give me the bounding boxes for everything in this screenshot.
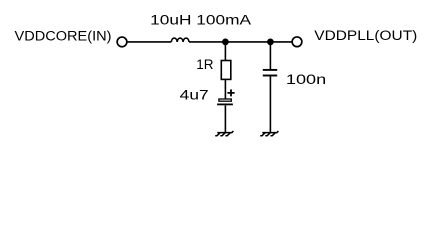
- svg-text:100n: 100n: [286, 71, 326, 87]
- wire capacitor C1 to ground: [224, 105, 226, 132]
- wire inductor to right terminal: [189, 41, 292, 43]
- capacitor C2 top plate: [263, 69, 277, 71]
- terminal circle VDDCORE(IN): [117, 37, 127, 47]
- junction node A (R/C branch): [222, 39, 229, 46]
- wire terminal to inductor: [128, 41, 172, 43]
- capacitor C1 bottom plate (solid): [217, 103, 233, 105]
- polarity plus sign: [227, 89, 234, 96]
- svg-text:10uH 100mA: 10uH 100mA: [150, 12, 252, 28]
- terminal circle VDDPLL(OUT): [292, 37, 302, 47]
- capacitor C2 bottom plate: [263, 75, 277, 77]
- wire resistor to capacitor C1: [224, 79, 226, 99]
- resistor R1 (box): [221, 61, 231, 80]
- capacitor C1 top plate (outlined, positive): [219, 99, 231, 101]
- wire capacitor C2 to ground: [269, 76, 271, 133]
- ground (left): [215, 131, 233, 136]
- junction node B (100n branch): [267, 39, 274, 46]
- inductor L1 10uH: [171, 38, 189, 42]
- svg-text:VDDPLL(OUT): VDDPLL(OUT): [314, 27, 417, 43]
- ground (right): [260, 131, 278, 136]
- wire node A down to resistor: [224, 42, 226, 61]
- svg-text:1R: 1R: [196, 56, 213, 72]
- wire node B down to capacitor C2: [269, 42, 271, 70]
- svg-text:4u7: 4u7: [180, 87, 209, 103]
- svg-text:VDDCORE(IN): VDDCORE(IN): [15, 27, 112, 43]
